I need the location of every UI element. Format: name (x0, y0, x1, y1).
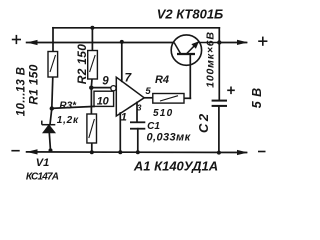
svg-text:9: 9 (102, 76, 109, 88)
svg-text:5 В: 5 В (250, 87, 264, 108)
svg-text:1: 1 (121, 111, 127, 123)
svg-text:3: 3 (137, 103, 142, 112)
svg-text:5: 5 (145, 86, 151, 97)
svg-text:0,033мк: 0,033мк (147, 131, 192, 143)
svg-text:V2 КТ801Б: V2 КТ801Б (157, 7, 224, 22)
svg-text:510: 510 (153, 108, 173, 119)
svg-text:А1 К140УД1А: А1 К140УД1А (133, 158, 218, 173)
svg-text:R2 150: R2 150 (75, 44, 89, 85)
svg-text:C2: C2 (196, 111, 211, 133)
svg-text:R1 150: R1 150 (26, 64, 40, 105)
svg-text:1,2к: 1,2к (57, 115, 79, 126)
svg-text:10: 10 (97, 96, 110, 108)
svg-text:КС147А: КС147А (26, 172, 59, 183)
svg-text:100мк×6В: 100мк×6В (205, 31, 217, 88)
svg-text:R3*: R3* (59, 100, 77, 111)
svg-text:V1: V1 (36, 157, 49, 169)
svg-text:R4: R4 (155, 74, 169, 86)
